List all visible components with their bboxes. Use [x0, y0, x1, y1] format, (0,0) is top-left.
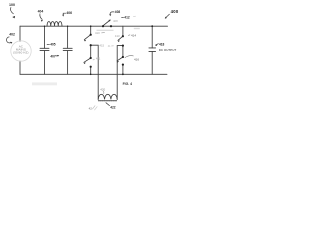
svg-text:415: 415	[99, 44, 104, 48]
svg-text:410: 410	[95, 31, 100, 35]
node: rail switch contact A	[102, 25, 104, 27]
reference numeral 404 (C1)	[38, 10, 44, 22]
wire top rail	[20, 25, 168, 27]
arrowhead S3 blade tip	[108, 20, 110, 22]
svg-text:414: 414	[131, 34, 136, 38]
switch S1 upper (leg 1)	[84, 26, 90, 58]
svg-text:412: 412	[124, 16, 130, 20]
node: C2 top junction	[67, 26, 68, 27]
svg-text:(50/60 HZ): (50/60 HZ)	[13, 51, 29, 55]
svg-text:422: 422	[110, 105, 116, 109]
label 416 (leg2 lower) with curved leader	[125, 56, 140, 62]
svg-text:400: 400	[171, 9, 179, 14]
node: leg2 bottom junction	[122, 73, 124, 75]
node: leg1 top junction	[90, 25, 92, 27]
reference numeral 406 (L1)	[62, 11, 72, 17]
inductor L1	[47, 22, 62, 27]
svg-text:407: 407	[50, 54, 56, 58]
node: leg2 mid node	[122, 45, 124, 47]
wire left riser top	[19, 26, 21, 41]
node: leg2 upper contact	[122, 35, 124, 37]
ghost text under rail (right)	[134, 28, 140, 29]
node: leg1 upper contact	[90, 34, 92, 36]
node: leg2 switch2 lower contact	[122, 64, 124, 66]
node: leg1 mid node	[90, 44, 92, 46]
wire left riser bottom	[19, 61, 21, 74]
node: output cap top	[151, 25, 153, 27]
switch S3 (top rail series switch)	[103, 20, 110, 26]
svg-text:406: 406	[66, 11, 72, 15]
switch S5 lower (leg 2)	[117, 57, 123, 74]
label 414 (leg2 upper right)	[128, 34, 136, 38]
reference numeral 408 (rail switch) with bent leader	[109, 10, 120, 16]
source VS1 (AC mains circle)	[11, 41, 31, 61]
reference numeral 412 with dash (top)	[121, 16, 130, 20]
text inside AC source	[13, 44, 29, 54]
watermark smudge	[32, 82, 57, 85]
node: rail switch contact B	[110, 25, 112, 27]
svg-text:413: 413	[115, 34, 120, 38]
capacitor C2	[63, 26, 72, 74]
svg-text:405: 405	[50, 43, 56, 47]
svg-text:402: 402	[9, 33, 15, 37]
wire bottom rail	[20, 73, 167, 75]
capacitor C3 (output)	[149, 26, 156, 74]
ghost text under rail (left of S3)	[97, 30, 114, 31]
reference numeral 405 (between C1 and C2)	[47, 43, 56, 47]
svg-text:100: 100	[9, 3, 15, 7]
wire tap from leg2 mid node	[117, 46, 123, 100]
label 420 (winding, grey)	[100, 87, 105, 94]
arrowhead S4 blade tip	[118, 41, 120, 43]
reference numeral 400 (top right) with diagonal leader	[165, 9, 179, 19]
junction dots	[44, 25, 153, 75]
svg-text:418: 418	[159, 42, 165, 46]
wire tap from leg1 mid node	[91, 45, 99, 99]
arrowhead S2 blade tip	[84, 63, 86, 65]
svg-text:420: 420	[100, 87, 105, 91]
reference numeral 100 (top-left)	[9, 3, 16, 19]
arrowhead S1 blade tip	[84, 40, 86, 42]
svg-text:41: 41	[108, 44, 111, 48]
reference numeral 418 (output cap)	[155, 42, 165, 46]
svg-text:42: 42	[89, 107, 93, 111]
node: C1 top junction	[44, 26, 45, 27]
node: leg1 switch2 lower contact	[90, 66, 92, 68]
svg-text:408: 408	[113, 19, 118, 23]
label tick (leg2 tap, grey)	[108, 44, 114, 48]
core line (dashed)	[98, 100, 116, 102]
arrowheads on switch blades	[84, 20, 120, 65]
node: leg1 bottom junction	[90, 74, 92, 76]
inductor L2 (winding)	[98, 94, 117, 99]
switch S2 lower (leg 1)	[84, 58, 91, 74]
svg-text:411: 411	[96, 56, 101, 60]
svg-text:404: 404	[38, 10, 44, 14]
capacitor C1	[40, 26, 49, 74]
label tick (leg1 upper right, grey)	[101, 31, 104, 34]
svg-text:FIG. 4: FIG. 4	[123, 82, 133, 86]
label 417 (leg1 lower, grey)	[93, 56, 101, 60]
small mark 426 under leg1	[89, 105, 98, 110]
svg-text:DC OUTPUT: DC OUTPUT	[159, 48, 177, 52]
svg-text:416: 416	[134, 57, 139, 61]
svg-text:408: 408	[115, 10, 121, 14]
reference numeral 402 (AC source)	[6, 33, 14, 44]
switch S4 upper (leg 2)	[118, 26, 123, 57]
ghost tick above rail	[133, 15, 136, 17]
node: leg2 switch2 upper contact	[122, 56, 124, 58]
reference numeral 407 (C2)	[50, 54, 59, 58]
node: leg1 switch2 upper contact	[90, 57, 92, 59]
arrowhead S5 blade tip	[117, 61, 119, 63]
leader to label 424	[106, 103, 110, 106]
